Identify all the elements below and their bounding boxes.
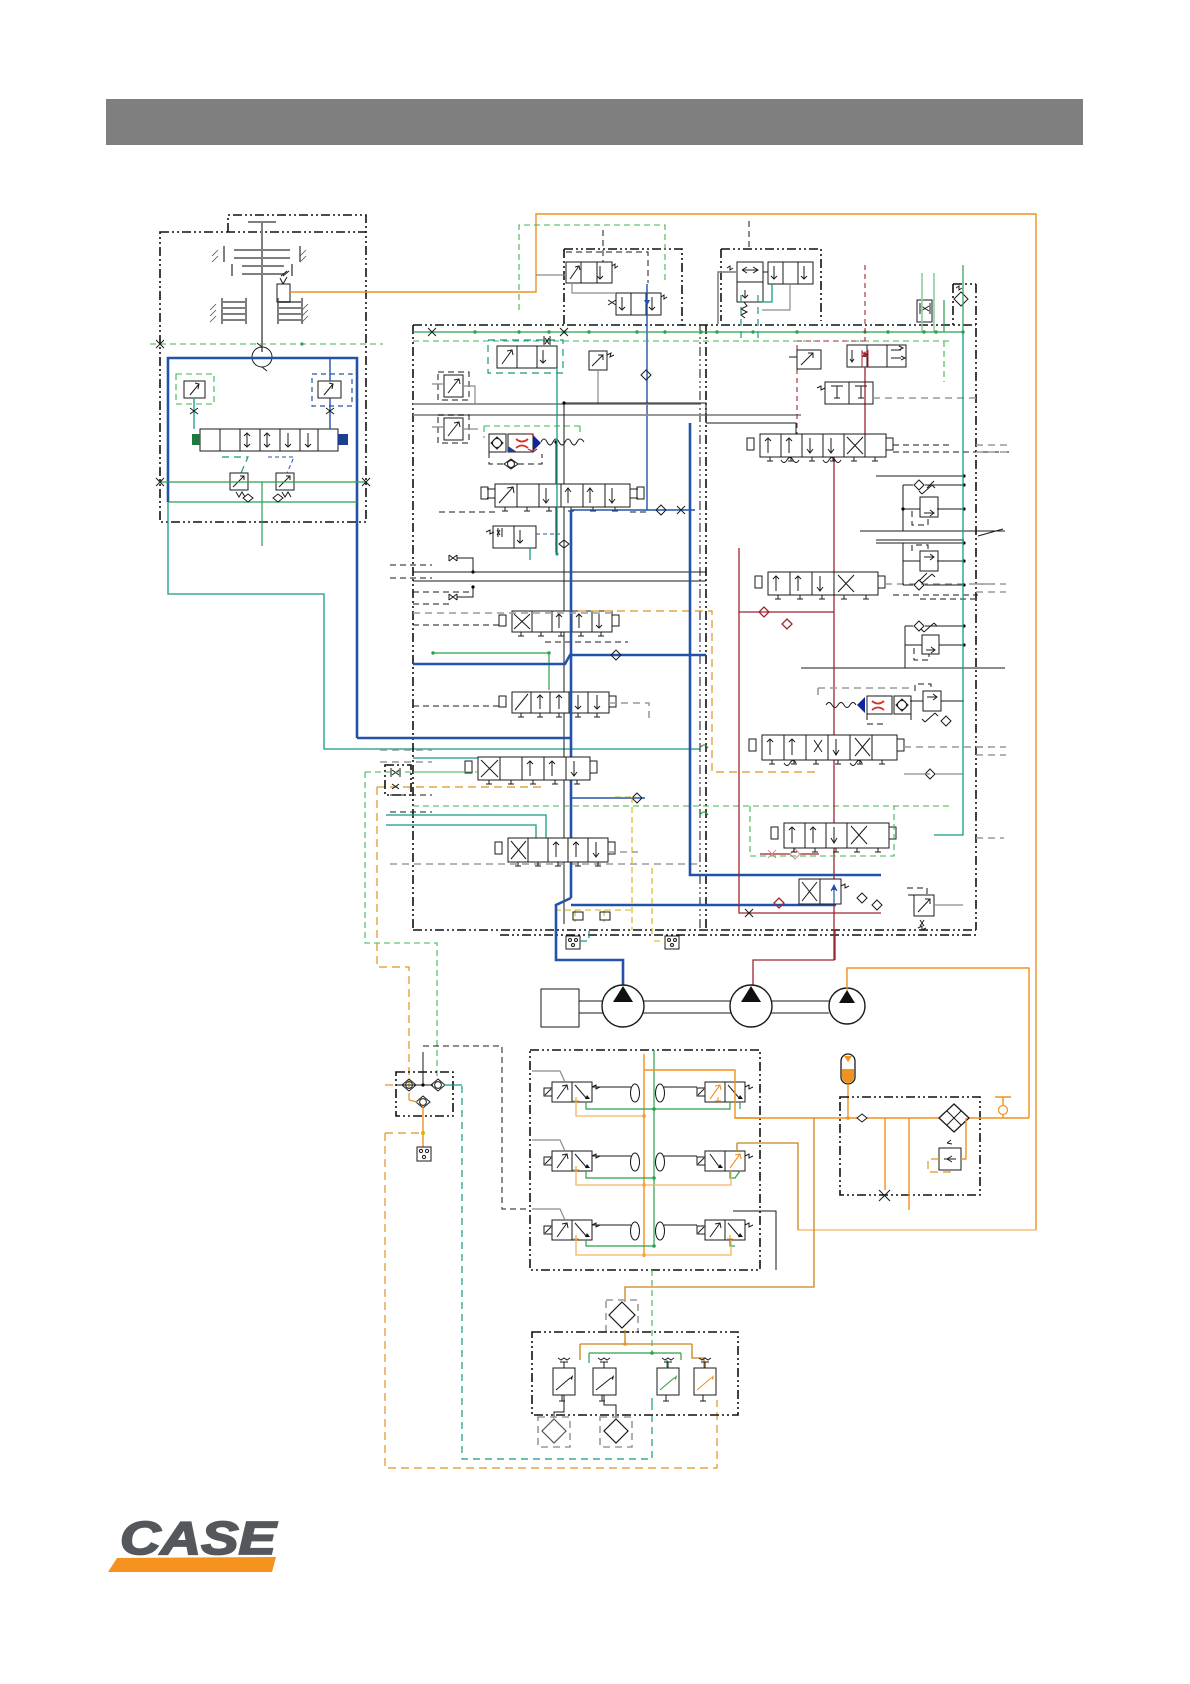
aux box small	[365, 765, 478, 795]
gray dashed long	[390, 863, 700, 865]
solenoid valve L3	[532, 1209, 631, 1240]
breather T1	[917, 300, 932, 322]
shuttle wiring	[385, 1052, 462, 1147]
relief cluster CC	[905, 621, 966, 668]
lower cartridge CV2	[818, 688, 951, 726]
coil pair row1	[631, 1084, 665, 1102]
main valve manifold enclosure	[413, 284, 976, 935]
U3 U4 wiring	[718, 221, 790, 324]
lh green dashed pilot	[365, 772, 437, 1080]
orange dashed rh drop	[413, 445, 1010, 838]
transmission enclosure box	[160, 215, 366, 522]
spool valve RD	[413, 611, 815, 784]
check valve C1	[641, 370, 651, 380]
pilot box top mid	[721, 249, 821, 321]
orifice squiggle	[541, 439, 584, 445]
filter bypass relief	[928, 1118, 966, 1172]
spool valve RC	[413, 692, 649, 720]
CASE logo text	[120, 1512, 278, 1564]
pump P1	[602, 985, 644, 1027]
green distribution	[589, 1270, 681, 1368]
crossing bumps green rail	[700, 745, 708, 815]
spool valve RH4	[771, 823, 896, 852]
shuttle checks	[402, 1079, 445, 1108]
engine block	[541, 989, 579, 1027]
pilot box top right	[953, 284, 976, 326]
row2 green tie	[586, 1171, 740, 1178]
blue branch b4	[571, 423, 881, 905]
orange feed down	[625, 1118, 814, 1302]
CASE logo orange bar	[108, 1557, 276, 1572]
title bar	[106, 99, 1083, 145]
svg-text:CASE: CASE	[120, 1512, 278, 1564]
pilot valve U1	[566, 262, 618, 283]
inching valve pair	[222, 457, 294, 497]
tank lines black	[413, 572, 706, 581]
orange distribution	[580, 1330, 704, 1368]
top filter F2	[606, 1300, 638, 1332]
lift cyl valve RM1	[817, 382, 976, 404]
solenoid valve L1	[532, 1071, 631, 1102]
clutch valve block	[192, 429, 348, 451]
row3 orange tie	[576, 1239, 731, 1255]
pilot rail green dashed	[413, 340, 953, 342]
shuttle valve U3	[727, 262, 763, 318]
charge pump circle	[252, 343, 272, 371]
main orange rail	[735, 1114, 1029, 1122]
teal right rail	[934, 332, 963, 835]
lock valve RH5	[799, 879, 849, 904]
pilot supply orange wire	[290, 214, 1036, 1230]
pilot solenoid block box	[530, 1050, 760, 1270]
pilot line from pto	[150, 340, 383, 348]
shutoff S1	[449, 555, 475, 574]
steering block box	[532, 1332, 738, 1415]
brake valve B4	[694, 1358, 716, 1401]
right edge port dashes	[976, 445, 1010, 838]
brake valve B2	[593, 1358, 616, 1401]
pressure rail green	[413, 330, 965, 333]
teal pilot drop	[555, 368, 569, 556]
blue check diamonds	[857, 893, 882, 910]
solenoid valve U4	[768, 262, 813, 284]
check T2	[954, 286, 968, 306]
accumulator A1	[841, 1054, 855, 1118]
red check row	[760, 849, 819, 859]
drops to filters	[554, 1395, 616, 1418]
accumulator charge valve V1	[488, 336, 563, 373]
gearbox input shaft	[222, 222, 302, 352]
green link g1	[431, 651, 550, 690]
teal drop from B3	[651, 1398, 653, 1404]
pilot pressure rail	[156, 478, 370, 486]
lh orange dashed pilot	[377, 787, 546, 1100]
relief R1	[432, 372, 475, 405]
coil pair row2	[631, 1153, 665, 1171]
gear hatching	[210, 250, 308, 322]
pilot dash links	[519, 225, 758, 341]
tank port t1	[566, 930, 589, 949]
solenoid valve R2	[664, 1151, 753, 1171]
main gray links	[413, 404, 1005, 668]
teal return line to main valve	[168, 502, 700, 758]
red feed to pump2	[753, 452, 834, 988]
priority cartridge CV1	[484, 426, 580, 469]
drive shaft	[579, 1001, 829, 1013]
brake valve B3	[657, 1358, 679, 1401]
solenoid valve R3	[664, 1211, 776, 1270]
solenoid valve L2	[532, 1140, 631, 1171]
feed node lines	[554, 401, 706, 924]
tank port t2	[652, 868, 679, 949]
steer priority dashed red box	[797, 265, 865, 452]
relief R2	[432, 415, 478, 443]
sheet link dashed box	[423, 1046, 530, 1209]
pump P2	[730, 930, 835, 1027]
blue branch b1	[571, 505, 695, 515]
green dashed verticals right	[750, 341, 944, 856]
drain rail with test ports	[168, 482, 357, 546]
filter F3	[538, 1417, 570, 1447]
row2 orange tie	[576, 1143, 798, 1230]
center green rail	[652, 1050, 656, 1248]
relief cluster CD	[910, 684, 964, 722]
filter drains	[879, 1118, 909, 1210]
blue branch b2	[413, 650, 706, 664]
filter unit box	[840, 1097, 980, 1195]
spool valve RB	[413, 611, 628, 642]
brake valve RL	[907, 888, 963, 930]
blue to pump	[556, 898, 623, 986]
row3 green tie	[586, 1240, 735, 1246]
reducing valve U2	[608, 293, 667, 315]
pilot valve on gearbox	[277, 271, 290, 302]
shutoff S2	[449, 585, 475, 600]
filter F4	[600, 1417, 632, 1447]
left modulating relief	[176, 374, 214, 429]
pilot box top left	[564, 249, 682, 325]
tank tee	[995, 1097, 1011, 1118]
left shuttle box	[396, 1072, 453, 1116]
row1 green tie	[586, 1102, 740, 1109]
blue branch feed	[357, 510, 571, 898]
U1 link wires	[536, 275, 616, 293]
steering teal dashed line	[462, 1086, 652, 1459]
tank return greens	[922, 265, 963, 332]
filter F1	[939, 1104, 969, 1132]
red return line	[739, 548, 881, 917]
pump P3	[829, 968, 1029, 1118]
spool valve RH3	[749, 735, 990, 779]
steer relief RV1	[847, 345, 906, 367]
orange return bottom	[798, 1229, 1036, 1231]
spool valve RH2	[755, 572, 995, 599]
supply blue loop	[168, 358, 357, 738]
brake valve B1	[553, 1358, 575, 1401]
reducing valve V3	[486, 526, 560, 560]
rail X plugs	[428, 328, 568, 336]
red riser main	[795, 367, 865, 454]
steer pilot valve RV0	[789, 350, 821, 369]
solenoid valve R1	[664, 1082, 753, 1102]
spool valve RE	[495, 838, 638, 866]
row1 orange tie	[576, 1070, 760, 1118]
relief cluster CB	[876, 541, 966, 590]
spool valve RA	[435, 484, 650, 512]
green dashed row	[386, 806, 950, 838]
center orange rail	[642, 1054, 646, 1257]
drain port box	[417, 1147, 431, 1161]
blue pilot drop	[644, 284, 650, 510]
divider port dashes	[413, 592, 612, 613]
U1 pilot dashes	[566, 230, 648, 283]
spool valve RH1	[706, 423, 1010, 463]
brake orange dashed line	[385, 1133, 717, 1468]
relief cluster CA	[876, 474, 966, 531]
left edge stubs	[380, 565, 432, 812]
flow control V2	[589, 351, 614, 405]
blue branch b3	[571, 793, 645, 803]
right modulating relief	[312, 358, 352, 429]
coil pair row3	[631, 1222, 665, 1240]
olive pilot dashes	[555, 797, 632, 930]
